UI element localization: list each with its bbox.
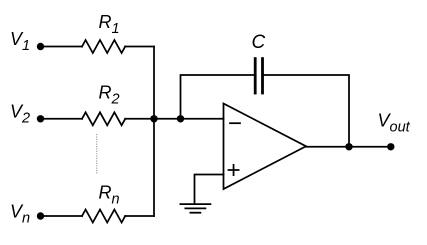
- wire Vn to Rn: [41, 215, 83, 217]
- svg-text:Vn: Vn: [10, 201, 30, 226]
- wire op-amp + input to ground: [195, 175, 224, 203]
- wire R1 to summing bus: [125, 46, 154, 48]
- wire V1 to R1: [41, 46, 83, 48]
- svg-text:Rn: Rn: [99, 182, 120, 207]
- op-amp U1: [224, 104, 307, 190]
- terminal Vn: [37, 212, 44, 219]
- resistor R2: [82, 112, 125, 125]
- wire R2 to summing node: [125, 118, 223, 120]
- resistor R1: [82, 40, 125, 53]
- ellipsis between V2 and Vn (more inputs): [96, 134, 98, 174]
- svg-text:Vout: Vout: [378, 111, 411, 136]
- resistor Rn: [82, 210, 125, 223]
- terminal Vout: [387, 143, 394, 150]
- wire V2 to R2: [41, 118, 83, 120]
- svg-text:V2: V2: [10, 102, 30, 127]
- svg-text:R1: R1: [99, 12, 120, 37]
- wire op-amp output to Vout: [306, 146, 391, 148]
- wire capacitor to output node: [264, 75, 349, 147]
- svg-text:C: C: [252, 32, 266, 53]
- wire Rn to summing bus: [125, 215, 154, 217]
- terminal V1: [37, 43, 44, 50]
- summing bus wire: [153, 47, 155, 217]
- op-amp non-inverting pin marker (plus): [229, 165, 239, 175]
- wire tap to capacitor: [181, 75, 254, 119]
- junction bus / row2: [150, 115, 157, 122]
- svg-text:V1: V1: [10, 29, 30, 54]
- op-amp inverting pin marker (minus): [230, 122, 240, 124]
- junction feedback tap: [177, 115, 184, 122]
- capacitor C: [255, 59, 262, 93]
- junction output / feedback: [345, 143, 352, 150]
- terminal V2: [37, 115, 44, 122]
- svg-text:R2: R2: [99, 82, 120, 107]
- ground: [180, 204, 210, 213]
